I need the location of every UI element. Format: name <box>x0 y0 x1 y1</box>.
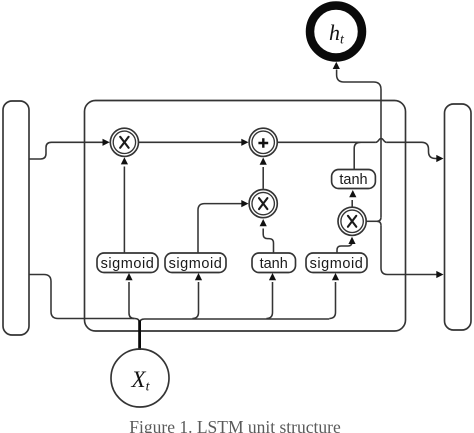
arrowhead riser1 <box>125 273 132 280</box>
junction arcs at x=381 <box>377 217 381 225</box>
multiply node X2 (input gate product) <box>249 190 277 218</box>
arrowhead into X1 bottom <box>121 157 128 164</box>
svg-text:tanh: tanh <box>260 256 288 272</box>
input node X(t) <box>111 349 169 407</box>
wire: X3 right to output vertical x=381 <box>367 220 377 222</box>
riser3 from bus into tanh1 <box>266 282 272 319</box>
arrowhead into right rail (h line) <box>436 271 443 278</box>
left state rail (previous state) <box>3 101 29 335</box>
output vertical line x=381 (to h(t) and right rail) <box>380 90 382 269</box>
wire: elbow to right rail (h line) <box>381 268 438 275</box>
right state rail (next state) <box>445 104 472 330</box>
wire: tanh1 up into X2 bottom <box>263 229 273 254</box>
arrowhead into add node bottom <box>260 158 267 165</box>
output node h(t) <box>310 6 362 58</box>
arrowhead riser3 <box>269 273 276 280</box>
wire: tanh2 branch off C line <box>354 142 360 169</box>
wire: X1 to add node <box>139 141 242 143</box>
wire: left rail to X1 (h(t-1) input) <box>29 142 103 159</box>
wire: sigmoid2 elbow into X2 left <box>198 204 242 253</box>
wire: X2 up into add node <box>262 167 264 189</box>
svg-text:Figure 1. LSTM unit structure: Figure 1. LSTM unit structure <box>129 417 341 433</box>
arrowhead into X2 bottom <box>260 219 267 226</box>
svg-text:tanh: tanh <box>339 172 367 188</box>
svg-text:ht: ht <box>329 20 345 48</box>
input bus with hop bump at X(t) junction <box>135 319 330 324</box>
wire: sigmoid3 jog into X3 bottom <box>337 242 352 253</box>
svg-text:Xt: Xt <box>131 367 151 395</box>
arrowhead into X3 bottom <box>348 237 355 244</box>
multiply node X1 <box>110 128 138 156</box>
arrowhead into h(t) bottom <box>333 62 340 69</box>
wire: left rail lower output down to input bus <box>29 275 135 319</box>
arrowhead into X2 left <box>241 200 248 207</box>
svg-text:sigmoid: sigmoid <box>169 256 223 272</box>
tanh box (output activation) <box>332 170 376 189</box>
svg-text:sigmoid: sigmoid <box>310 256 364 272</box>
arrowhead into add node left <box>241 139 248 146</box>
riser2 from bus into sigmoid2 <box>192 282 198 319</box>
wire: X3 up into tanh2 <box>351 200 353 207</box>
arrowhead riser2 <box>195 273 202 280</box>
multiply node X3 (output gate product) <box>338 207 366 235</box>
LSTM cell body box <box>85 101 406 332</box>
thick input stem from X(t) <box>138 321 141 351</box>
wire: add node to right rail (C(t) line) with hop over h(t) feed <box>278 142 438 158</box>
wire: elbow to h(t) <box>337 70 381 90</box>
riser1 from bus into sigmoid1 <box>129 282 135 319</box>
gate box tanh1 (candidate) <box>252 253 296 273</box>
arrowhead into tanh2 bottom <box>349 190 356 197</box>
gate box sigmoid1 (forget gate) <box>97 253 158 273</box>
gate box sigmoid3 (output gate) <box>306 253 367 273</box>
arrowhead into X1 left <box>103 139 110 146</box>
wire: sigmoid1 up into X1 bottom <box>123 167 125 254</box>
bus end elbow up to sigmoid3 riser <box>329 282 335 319</box>
hop bump over vertical at x=381 <box>376 139 386 143</box>
gate box sigmoid2 (input gate) <box>165 253 226 273</box>
arrowhead into right rail (C line) <box>436 155 443 162</box>
add node + <box>249 128 277 156</box>
svg-text:sigmoid: sigmoid <box>101 256 155 272</box>
arrowhead riser4 into sigmoid3 bottom <box>332 273 339 280</box>
